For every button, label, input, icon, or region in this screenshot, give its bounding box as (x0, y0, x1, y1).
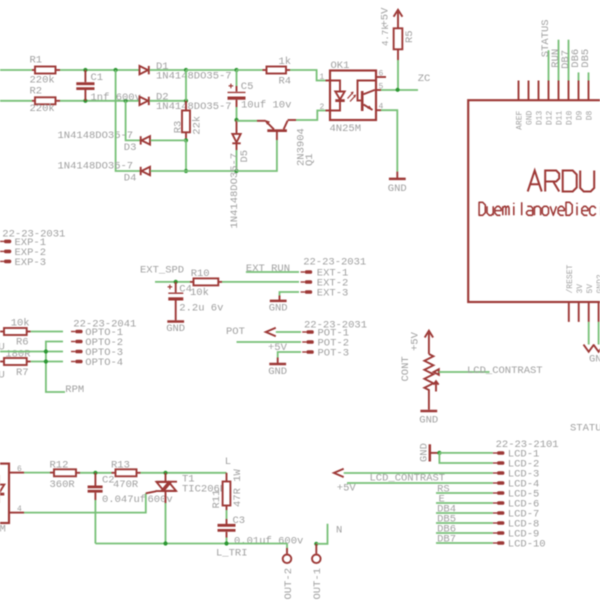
wire L_TRI bottom rail (95, 543, 287, 545)
capacitor C5 (236, 70, 238, 86)
wire OPTO-2 / RPM (46, 342, 65, 393)
resistor R12 (50, 472, 54, 474)
svg-text:22k: 22k (192, 116, 204, 135)
resistor R1 (32, 69, 35, 71)
svg-text:DB5: DB5 (580, 49, 592, 68)
wire net1 left (0, 69, 32, 71)
pin D9 top (578, 81, 580, 101)
wire D10 net (568, 40, 570, 81)
capacitor C4 (175, 282, 177, 293)
ground (428, 393, 430, 410)
wire OPTO-4 (31, 361, 63, 363)
IC ARDUINO board (468, 100, 600, 302)
svg-text:GND: GND (268, 366, 287, 378)
svg-text:STATUS: STATUS (570, 423, 600, 435)
pin LCD-5 (493, 492, 497, 494)
wire D1 cathode (150, 69, 187, 71)
diode D5 (236, 120, 238, 134)
wire LCD-4 +5V (347, 482, 493, 484)
resistor R5 +5V (394, 10, 403, 17)
wire to R4 (237, 69, 263, 71)
junction (224, 541, 228, 545)
wire collector to OK1 pin2 (296, 111, 326, 121)
transistor Q1 (237, 120, 258, 122)
wire R5 to ZC (397, 60, 399, 89)
junction (124, 99, 128, 103)
svg-text:D13: D13 (535, 111, 544, 126)
junction (44, 349, 48, 353)
svg-text:1N4148DO35-7: 1N4148DO35-7 (156, 71, 232, 83)
pin OPTO-4 (71, 361, 75, 363)
wire LCD-3 LCD_CONTRAST with arrow (334, 469, 344, 477)
svg-text:2: 2 (320, 103, 325, 112)
svg-text:C2: C2 (102, 475, 115, 487)
wire D12 net (548, 50, 550, 80)
svg-text:10uf 10v: 10uf 10v (241, 99, 291, 111)
wire POT-1 with arrow (266, 328, 276, 336)
svg-text:GND: GND (269, 302, 288, 314)
svg-text:EXT-3: EXT-3 (317, 288, 349, 300)
svg-text:2.2u 6v: 2.2u 6v (179, 303, 223, 315)
pin EXT-1 (301, 271, 305, 273)
pin LCD-8 (493, 522, 497, 524)
+5V arrow (425, 331, 433, 338)
wire R3 down (185, 140, 187, 171)
svg-text:Q1: Q1 (304, 153, 316, 166)
pin LCD-10 (493, 542, 497, 544)
svg-text:EXP-3: EXP-3 (15, 257, 47, 269)
svg-text:1N4148DO35-7: 1N4148DO35-7 (156, 101, 232, 113)
svg-text:D11: D11 (555, 111, 564, 126)
svg-text:OK1: OK1 (331, 60, 350, 72)
svg-text:R1: R1 (30, 54, 43, 66)
pin D13 top (538, 81, 540, 101)
ground (389, 178, 406, 181)
svg-text:4.7k: 4.7k (381, 24, 391, 46)
svg-text:1k: 1k (279, 56, 292, 68)
pin 3V bottom (578, 302, 580, 322)
pin D11 top (558, 81, 560, 101)
svg-text:180R: 180R (5, 349, 31, 361)
OK1 pin4 stub (376, 109, 381, 111)
resistor R10 (190, 281, 194, 283)
svg-text:/RESET: /RESET (566, 264, 575, 293)
diode D4 (142, 167, 151, 175)
ground arrow 1 (588, 322, 590, 345)
junction (184, 169, 188, 173)
wire LCD_CONTRAST wiper (439, 371, 490, 373)
pin EXT-2 (301, 281, 305, 283)
svg-text:EXT_RUN: EXT_RUN (246, 263, 290, 275)
wire D2 cathode (150, 100, 187, 102)
pin EXP-1 (0, 240, 4, 242)
wire OPTO-3 (0, 351, 63, 353)
svg-text:D9: D9 (575, 111, 584, 121)
wire net2 left (0, 100, 32, 102)
pin EXP-2 (0, 250, 4, 252)
svg-text:R7: R7 (16, 367, 29, 379)
svg-text:220k: 220k (30, 103, 55, 115)
wire LCD-6 E (436, 502, 493, 504)
capacitor C3 (226, 510, 228, 519)
svg-text:U: U (0, 370, 5, 382)
pin OPTO-2 (71, 341, 75, 343)
svg-text:D10: D10 (565, 111, 574, 126)
svg-text:U: U (0, 342, 5, 354)
svg-text:0.01uf 600v: 0.01uf 600v (234, 536, 303, 548)
svg-text:360R: 360R (50, 479, 76, 491)
svg-text:C3: C3 (233, 515, 246, 527)
svg-text:RPM: RPM (65, 384, 84, 396)
svg-text:C5: C5 (241, 81, 254, 93)
svg-text:C1: C1 (91, 72, 104, 84)
wire R13 to T1 (141, 472, 227, 474)
junction (163, 471, 167, 475)
svg-text:1N4148DO35-7: 1N4148DO35-7 (229, 153, 241, 229)
pin GND top (528, 81, 530, 101)
junction (437, 451, 441, 455)
wire Q1 base down (276, 132, 278, 140)
wire C5 branch (186, 69, 237, 71)
pin D10 top (568, 81, 570, 101)
junction (234, 169, 238, 173)
svg-text:OUT-2: OUT-2 (283, 568, 295, 600)
wire POT-3 to GND (278, 352, 301, 358)
svg-text:47R 1W: 47R 1W (232, 468, 244, 507)
diode D3 (142, 136, 151, 144)
svg-text:10k: 10k (190, 287, 209, 299)
resistor R6 (0, 331, 4, 333)
svg-text:10k: 10k (11, 317, 30, 329)
svg-text:L_TRI: L_TRI (216, 548, 248, 560)
wire D8 net (588, 72, 590, 80)
svg-text:+5V: +5V (410, 331, 422, 351)
junction (184, 138, 188, 142)
terminal OUT-2 (286, 544, 288, 549)
pin LCD-2 (493, 462, 497, 464)
svg-text:AREF: AREF (515, 111, 524, 130)
wire EXT_SPD net (155, 281, 190, 283)
wire LCD-5 RS (436, 492, 493, 494)
junction (234, 118, 238, 122)
wire pin6 to R12 (24, 472, 50, 474)
svg-text:R5: R5 (404, 30, 416, 43)
svg-text:1N4148DO35-7: 1N4148DO35-7 (58, 130, 134, 142)
junction (163, 541, 167, 545)
svg-text:R13: R13 (111, 460, 130, 472)
pin D8 top (588, 81, 590, 101)
wire D4 row (116, 70, 140, 171)
resistor R3 (185, 101, 187, 111)
svg-text:LCD_CONTRAST: LCD_CONTRAST (467, 365, 543, 377)
svg-text:R11: R11 (211, 490, 223, 509)
svg-text:1: 1 (320, 73, 325, 82)
wire LCD-1 (439, 452, 492, 454)
junction (114, 68, 118, 72)
wire LCD-10 DB7 (436, 542, 493, 544)
diode D1 (140, 66, 149, 74)
pin EXT-3 (301, 291, 305, 293)
capacitor C2 (94, 473, 96, 486)
svg-text:D4: D4 (124, 172, 137, 184)
pin D12 top (548, 81, 550, 101)
svg-text:N: N (336, 525, 342, 537)
triac T1 (165, 473, 167, 482)
resistor R7 (0, 361, 4, 363)
svg-text:GND2: GND2 (596, 274, 600, 293)
svg-text:D8: D8 (585, 111, 594, 121)
svg-text:D3: D3 (124, 142, 137, 154)
wire net2 to D2 (60, 100, 140, 102)
ground (167, 320, 184, 323)
pin 5V bottom (588, 302, 590, 322)
resistor R13 (112, 472, 116, 474)
wire ZC net (381, 89, 418, 91)
wire EXT-2 (222, 281, 299, 283)
junction (174, 280, 178, 284)
junction (184, 99, 188, 103)
pin OPTO-1 (71, 331, 75, 333)
svg-text:R6: R6 (16, 337, 29, 349)
wire base net (186, 170, 237, 172)
svg-text:M: M (0, 524, 6, 536)
junction (93, 471, 97, 475)
svg-text:D12: D12 (545, 111, 554, 126)
wire LCD-7 DB4 (436, 512, 493, 514)
wire D4 to junction (151, 170, 187, 172)
svg-text:0.047uf: 0.047uf (102, 494, 146, 506)
wire gate to OK2 pin4 (24, 493, 146, 512)
wire vertical D1-D2 (185, 70, 187, 101)
pin POT-2 (302, 341, 306, 343)
svg-text:ZC: ZC (418, 73, 431, 85)
wire R12 to C2/R13 (80, 472, 112, 474)
svg-text:R10: R10 (191, 268, 210, 280)
ground (270, 300, 287, 303)
svg-text:R2: R2 (30, 85, 43, 97)
pin LCD-6 (493, 502, 497, 504)
pin LCD-7 (493, 512, 497, 514)
svg-text:GND: GND (419, 443, 431, 462)
pin LCD-9 (493, 532, 497, 534)
svg-text:LCD-10: LCD-10 (508, 539, 546, 551)
wire LCD-8 DB5 (436, 522, 493, 524)
pin OPTO-3 (71, 351, 75, 353)
OK1 pin6 stub (376, 76, 386, 78)
OK2 pin4 stub (9, 512, 24, 514)
svg-text:OPTO-4: OPTO-4 (85, 357, 123, 369)
ground arrow 2 (598, 322, 600, 345)
svg-text:OUT-1: OUT-1 (312, 568, 324, 600)
wire D9 net (578, 72, 580, 80)
pin GND2 bottom (598, 302, 600, 322)
wire D3 row (126, 101, 140, 141)
svg-text:470R: 470R (113, 479, 139, 491)
svg-text:CONT: CONT (400, 356, 412, 381)
wire R4 to OK1 pin1 (290, 70, 326, 81)
diode D2 (140, 97, 149, 105)
junction (314, 542, 318, 546)
svg-text:GND: GND (589, 354, 600, 366)
OK2 pin6 stub (9, 472, 24, 474)
wire OK1 pin4 to GND (381, 110, 397, 171)
capacitor C1 (84, 70, 86, 82)
svg-text:1N4148DO35-7: 1N4148DO35-7 (58, 160, 134, 172)
OK1 pin5 stub (376, 89, 381, 91)
svg-text:5V: 5V (586, 284, 595, 294)
wire net1 to D1 (60, 69, 140, 71)
pin AREF top (518, 81, 520, 101)
pin /RESET bottom (568, 302, 570, 322)
junction (184, 68, 188, 72)
opto-coupler OK2 (clipped) (0, 464, 9, 523)
wire OPTO-1 (31, 331, 63, 333)
svg-text:C4: C4 (179, 283, 192, 295)
svg-text:GND: GND (388, 183, 407, 195)
svg-text:+5V: +5V (380, 7, 392, 27)
wire LCD-2 (439, 453, 492, 463)
pin LCD-3 (493, 472, 497, 474)
wire EXT-3 to GND (280, 292, 300, 296)
junction (83, 68, 87, 72)
svg-text:EXT_SPD: EXT_SPD (140, 265, 184, 277)
resistor R2 (32, 100, 35, 102)
wire D3 to R3 (151, 139, 187, 141)
wire D11 net (558, 40, 560, 81)
svg-text:R4: R4 (279, 75, 292, 87)
svg-text:L: L (225, 456, 231, 468)
ground (269, 363, 286, 366)
svg-text:R12: R12 (50, 460, 69, 472)
svg-text:600v: 600v (148, 494, 173, 506)
svg-text:GND: GND (419, 414, 438, 426)
svg-text:POT: POT (226, 326, 245, 338)
svg-text:3V: 3V (576, 284, 585, 294)
pin LCD-4 (493, 482, 497, 484)
potentiometer CONT (424, 354, 433, 393)
junction (44, 359, 48, 363)
svg-text:GND: GND (166, 323, 185, 335)
svg-text:+5V: +5V (337, 483, 357, 495)
pin POT-1 (302, 331, 306, 333)
opto-coupler OK1 (330, 71, 376, 121)
junction (396, 88, 400, 92)
pin EXP-3 (0, 260, 4, 262)
svg-text:4N25M: 4N25M (330, 123, 362, 135)
ground rotated (429, 444, 432, 461)
resistor R4 (263, 69, 267, 71)
junction (83, 99, 87, 103)
pin LCD-1 (493, 452, 497, 454)
svg-text:DB7: DB7 (437, 534, 456, 546)
wire LCD-9 DB6 (436, 532, 493, 534)
pin POT-3 (302, 351, 306, 353)
wire POT-2 +5V (237, 341, 302, 343)
svg-text:R3: R3 (173, 121, 185, 134)
svg-text:GND: GND (525, 111, 534, 126)
svg-text:POT-3: POT-3 (318, 348, 350, 360)
junction (234, 68, 238, 72)
